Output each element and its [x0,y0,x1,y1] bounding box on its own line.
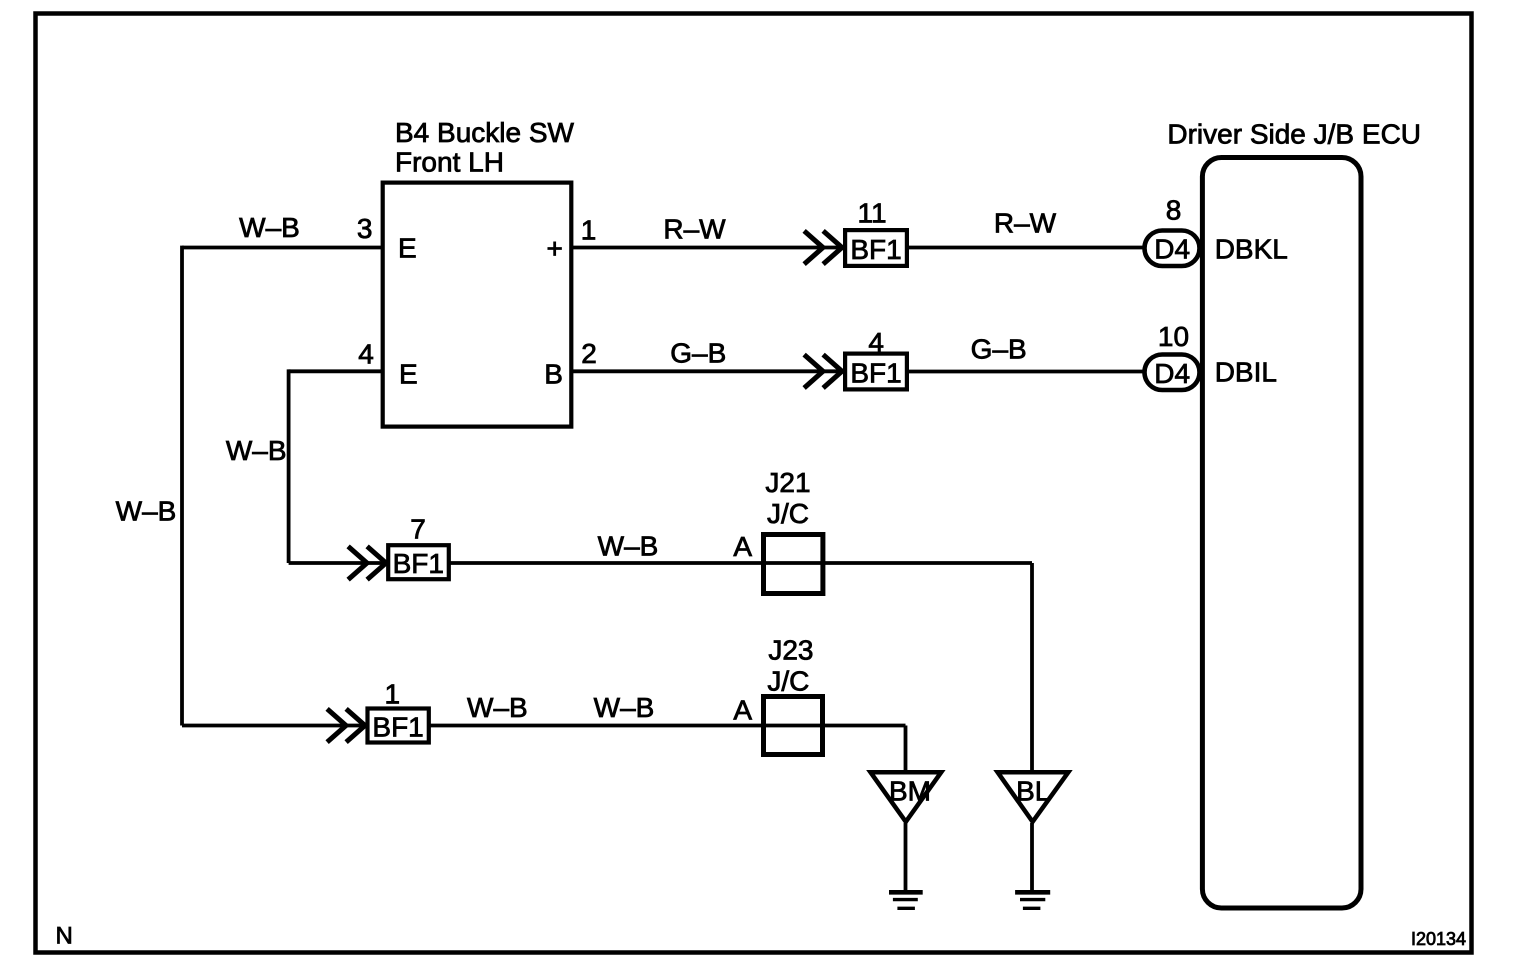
svg-text:1: 1 [581,215,597,246]
svg-text:Front LH: Front LH [395,147,504,178]
svg-text:BF1: BF1 [850,234,901,265]
svg-text:A: A [733,695,752,726]
svg-text:B: B [544,359,563,390]
svg-text:B4 Buckle SW: B4 Buckle SW [395,117,575,148]
svg-text:7: 7 [410,514,426,545]
svg-text:+: + [547,233,563,264]
svg-text:R–W: R–W [663,214,726,245]
svg-text:8: 8 [1166,194,1182,225]
svg-text:J/C: J/C [767,666,809,697]
svg-text:J21: J21 [765,467,810,498]
svg-text:3: 3 [357,213,373,244]
svg-text:BM: BM [889,775,931,806]
svg-text:J/C: J/C [767,498,809,529]
svg-text:G–B: G–B [670,338,726,369]
svg-text:W–B: W–B [598,531,659,562]
svg-text:E: E [398,232,417,263]
svg-text:W–B: W–B [226,435,287,466]
svg-text:R–W: R–W [994,208,1057,239]
svg-text:BF1: BF1 [850,358,901,389]
svg-text:11: 11 [857,198,886,229]
svg-text:4: 4 [868,327,884,358]
svg-text:2: 2 [581,338,597,369]
svg-text:W–B: W–B [467,692,528,723]
svg-text:W–B: W–B [116,496,177,527]
svg-text:A: A [733,531,752,562]
svg-text:DBIL: DBIL [1215,357,1277,388]
svg-text:I20134: I20134 [1411,929,1466,949]
svg-text:DBKL: DBKL [1215,234,1288,265]
svg-text:10: 10 [1158,321,1189,352]
svg-text:BL: BL [1016,775,1050,806]
svg-text:BF1: BF1 [372,712,423,743]
svg-text:G–B: G–B [971,334,1027,365]
svg-text:W–B: W–B [594,692,655,723]
svg-text:E: E [399,359,418,390]
svg-text:D4: D4 [1154,358,1190,389]
svg-text:Driver Side J/B ECU: Driver Side J/B ECU [1167,119,1421,150]
svg-text:BF1: BF1 [393,548,444,579]
svg-text:N: N [56,922,73,949]
svg-text:D4: D4 [1154,234,1190,265]
svg-text:J23: J23 [768,635,813,666]
svg-text:1: 1 [385,679,401,710]
svg-text:W–B: W–B [239,212,300,243]
svg-text:4: 4 [358,339,374,370]
